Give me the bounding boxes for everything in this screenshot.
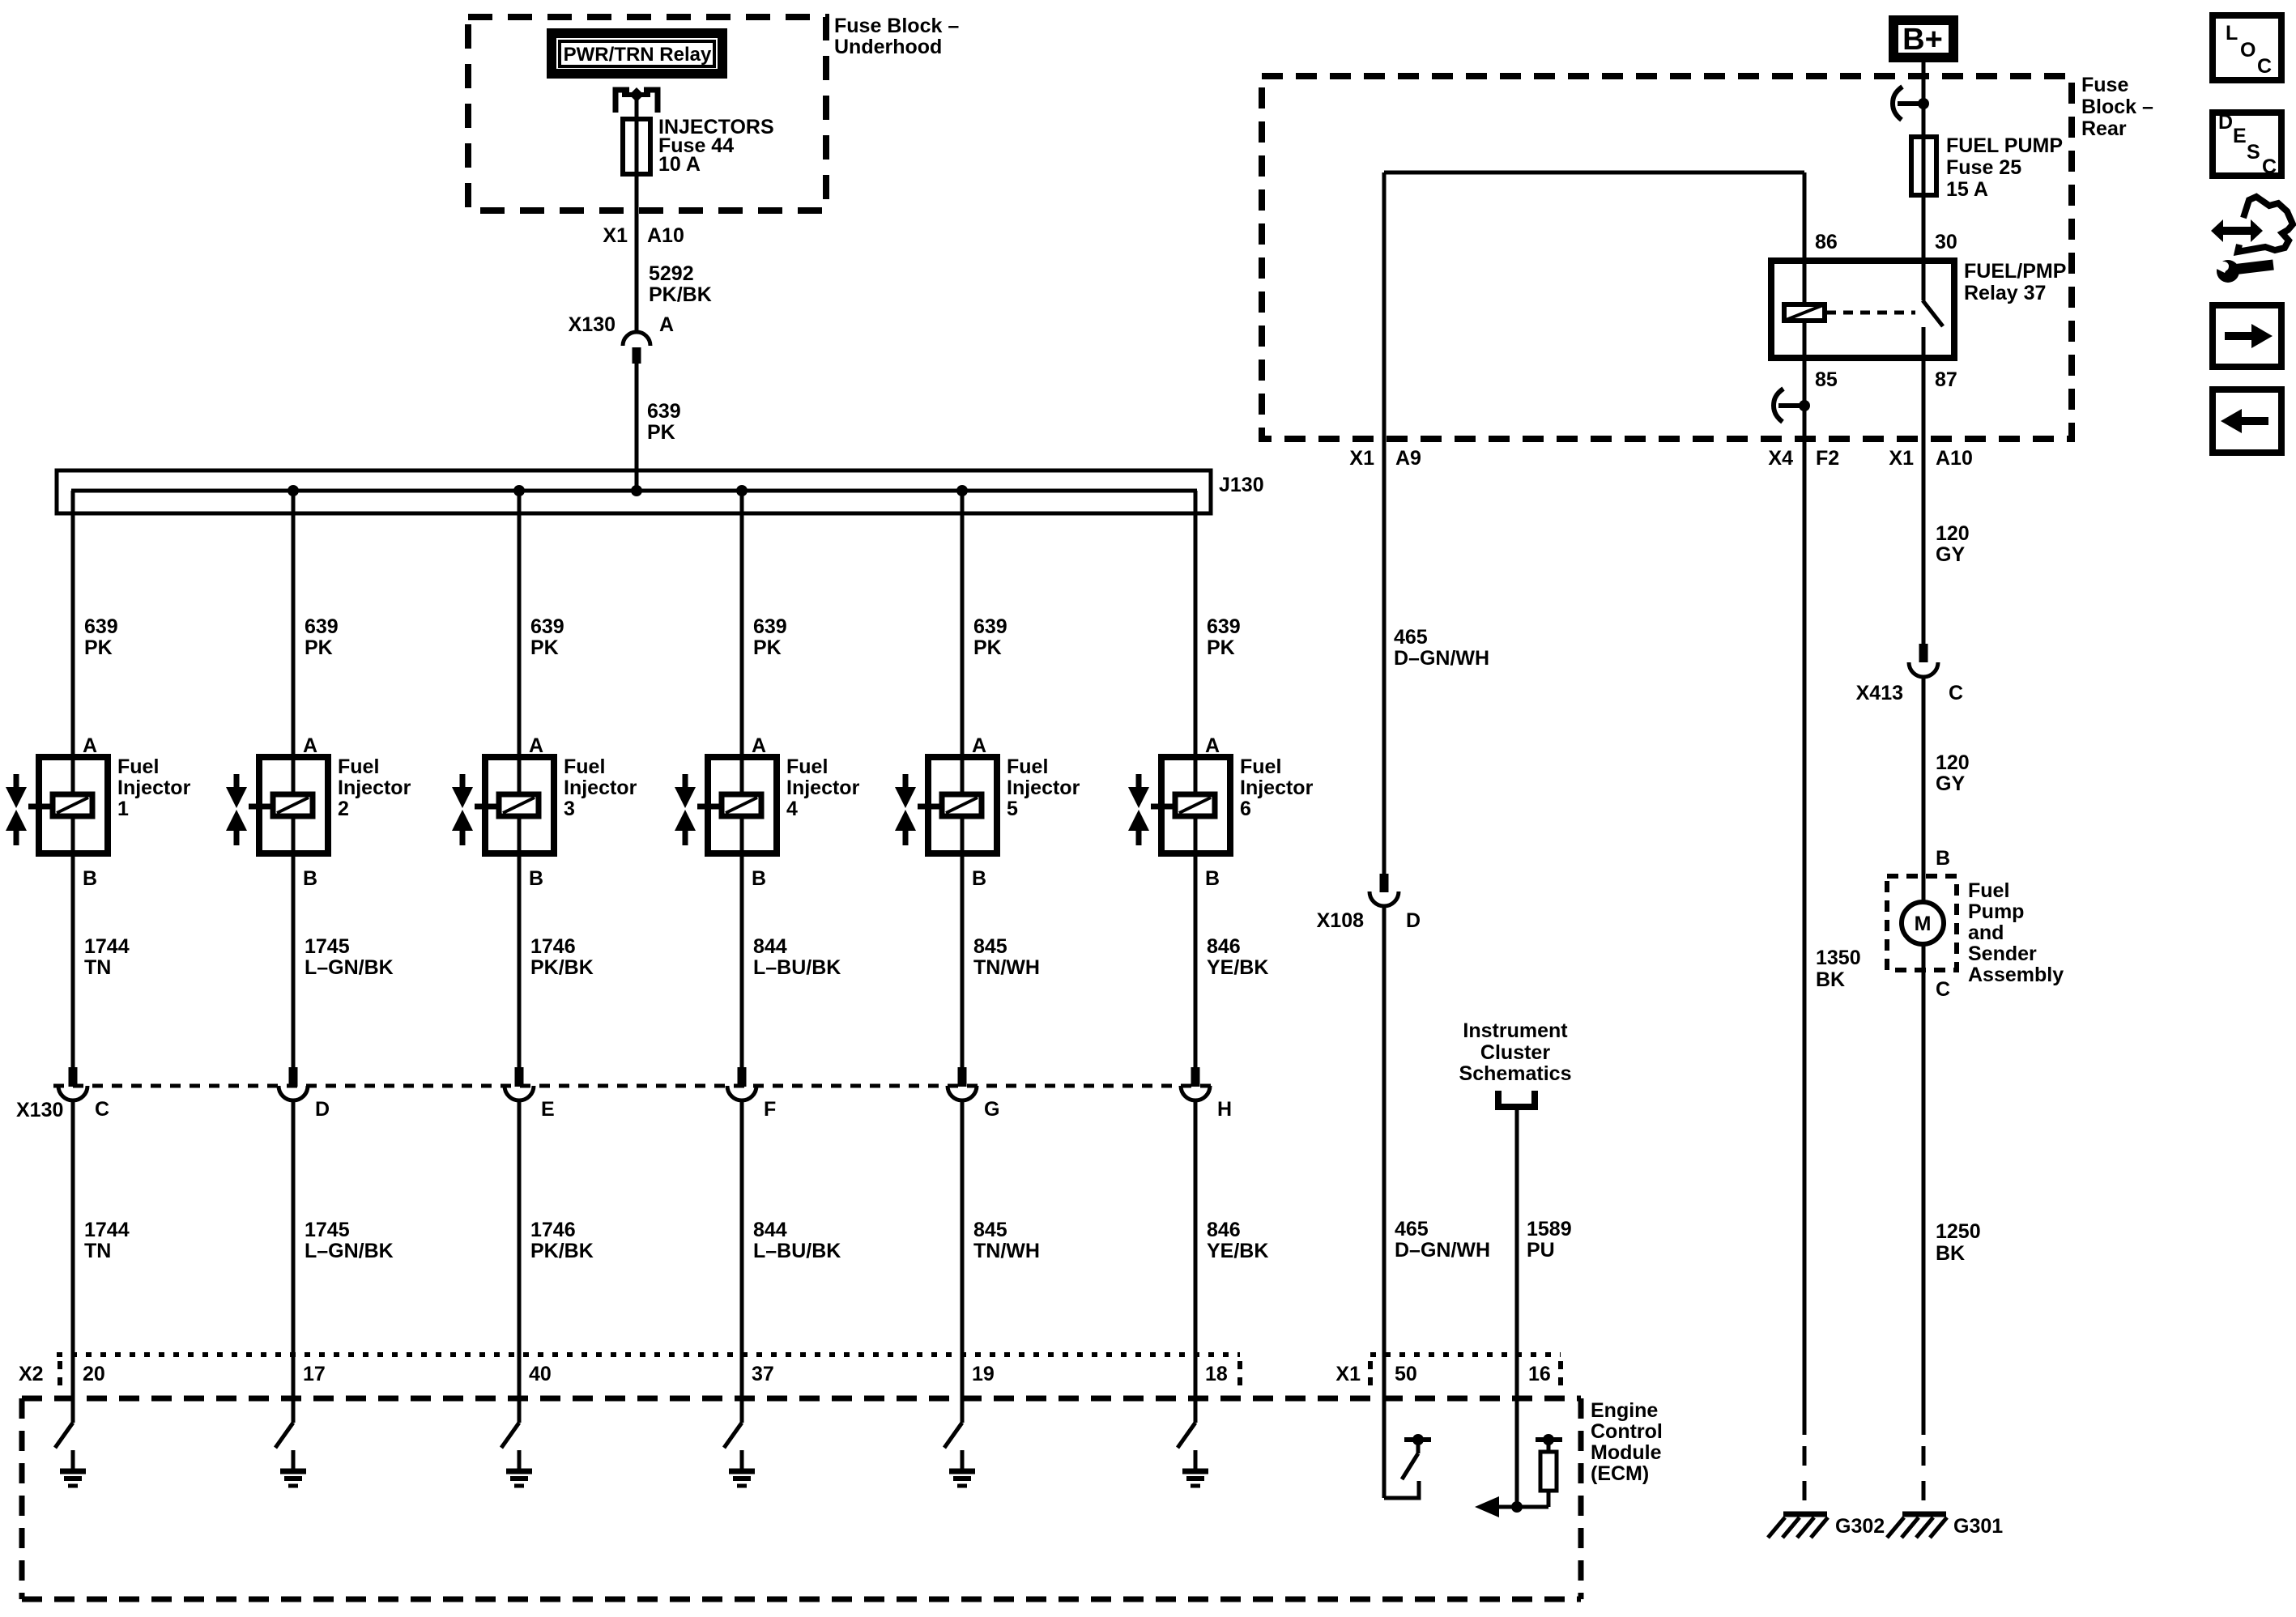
label wire 465 D-GN/WH (upper)	[1394, 626, 1489, 670]
svg-text:5: 5	[1007, 798, 1018, 820]
fuse block - underhood (dashed box)	[468, 17, 826, 211]
svg-text:Injector: Injector	[1240, 777, 1314, 799]
svg-text:B: B	[1205, 867, 1220, 890]
svg-text:S: S	[2247, 141, 2260, 164]
wire to G301 (dashed lead)	[1922, 1446, 1926, 1500]
svg-text:D–GN/WH: D–GN/WH	[1394, 647, 1489, 670]
label wire 639 PK (feed)	[647, 400, 681, 444]
svg-text:Fuel: Fuel	[117, 755, 159, 778]
svg-text:X130: X130	[569, 313, 616, 336]
svg-text:PWR/TRN Relay: PWR/TRN Relay	[564, 44, 712, 66]
svg-text:B: B	[83, 867, 97, 890]
svg-text:Cluster: Cluster	[1480, 1041, 1550, 1064]
svg-text:1589: 1589	[1527, 1218, 1572, 1240]
inline connector X130 pin G	[948, 1067, 999, 1121]
label wire 845 TN/WH lower	[973, 1219, 1040, 1262]
label Fuse Block - Rear	[2081, 74, 2153, 140]
svg-text:L–GN/BK: L–GN/BK	[305, 956, 394, 979]
wire 1746 PK/BK upper	[518, 853, 522, 1067]
svg-text:86: 86	[1815, 231, 1838, 253]
svg-text:D: D	[2218, 111, 2233, 134]
wire 639 PK to fuel injector 5	[961, 491, 965, 757]
label wire 465 D-GN/WH (lower)	[1395, 1218, 1490, 1262]
ground G301	[1887, 1514, 2003, 1538]
svg-text:BK: BK	[1936, 1242, 1965, 1265]
clip at B+ feed	[1893, 87, 1929, 120]
fuel injector 5	[895, 757, 997, 853]
wire 1744 TN upper	[71, 853, 75, 1067]
label wire 1746 PK/BK lower	[530, 1219, 594, 1262]
svg-text:6: 6	[1240, 798, 1251, 820]
wire 1744 TN lower	[71, 1100, 75, 1423]
svg-text:Fuel: Fuel	[564, 755, 605, 778]
svg-text:X2: X2	[19, 1363, 44, 1385]
svg-text:PK: PK	[84, 636, 113, 659]
svg-text:D: D	[315, 1098, 330, 1121]
svg-text:B: B	[752, 867, 766, 890]
svg-text:Injector: Injector	[1007, 777, 1080, 799]
label Fuel Injector 6	[1240, 755, 1314, 820]
icon adjust/wrench	[2211, 197, 2293, 283]
label relay pin 85	[1815, 368, 1838, 391]
label pin A injector 1	[83, 734, 97, 757]
svg-text:639: 639	[530, 615, 564, 638]
label FUEL PUMP Fuse 25 15 A	[1946, 134, 2063, 201]
wire 639 PK to fuel injector 1	[71, 491, 75, 757]
svg-text:BK: BK	[1816, 968, 1845, 991]
label X4 F2	[1768, 447, 1839, 470]
label Fuel Injector 4	[786, 755, 860, 820]
inline connector X130 pin E	[505, 1067, 555, 1121]
ground symbol col 3	[506, 1450, 532, 1486]
label ECM pin 37	[752, 1363, 774, 1385]
svg-text:639: 639	[84, 615, 118, 638]
svg-text:4: 4	[786, 798, 798, 820]
wire 465 D-GN/WH to ECM pin 50	[1382, 906, 1387, 1498]
label X1 (ECM)	[1335, 1363, 1361, 1385]
svg-text:PK: PK	[973, 636, 1002, 659]
svg-text:Injector: Injector	[786, 777, 860, 799]
svg-text:E: E	[2233, 125, 2247, 147]
relay PWR/TRN Relay (box)	[552, 33, 722, 74]
label Fuel Pump and Sender Assembly	[1968, 879, 2064, 986]
svg-text:(ECM): (ECM)	[1591, 1462, 1649, 1485]
svg-text:B+: B+	[1902, 23, 1943, 57]
fuel injector 3	[452, 757, 554, 853]
svg-text:19: 19	[972, 1363, 995, 1385]
icon back arrow box	[2213, 389, 2281, 453]
svg-text:Fuse: Fuse	[2081, 74, 2128, 96]
svg-text:X1: X1	[1335, 1363, 1361, 1385]
wire 465 D-GN/WH vertical	[1382, 172, 1387, 874]
fuel injector 2	[226, 757, 328, 853]
svg-text:Module: Module	[1591, 1441, 1662, 1464]
svg-text:2: 2	[338, 798, 349, 820]
label wire 844 L–BU/BK upper	[753, 935, 841, 979]
svg-text:PK/BK: PK/BK	[530, 1240, 594, 1262]
svg-text:B: B	[1936, 847, 1950, 870]
svg-text:50: 50	[1395, 1363, 1417, 1385]
fuel pump and sender assembly (dashed box)	[1887, 876, 1957, 970]
svg-text:X1: X1	[603, 224, 628, 247]
label wire 1744 TN lower	[84, 1219, 130, 1262]
svg-text:A: A	[659, 313, 674, 336]
label wire 1350 BK	[1816, 947, 1861, 991]
wire 120 GY upper	[1922, 358, 1926, 644]
svg-text:G: G	[984, 1098, 999, 1121]
ECM driver switch col 2	[275, 1423, 293, 1448]
svg-text:20: 20	[83, 1363, 105, 1385]
svg-text:PK: PK	[530, 636, 559, 659]
splice pack J130 (bus)	[57, 470, 1264, 513]
label pin A injector 3	[529, 734, 543, 757]
label Fuel Injector 2	[338, 755, 411, 820]
svg-text:Schematics: Schematics	[1459, 1062, 1572, 1085]
svg-text:Engine: Engine	[1591, 1399, 1658, 1422]
relay switch blade	[1923, 300, 1943, 358]
svg-text:Fuel: Fuel	[338, 755, 379, 778]
label wire 1250 BK	[1936, 1220, 1981, 1265]
wire 639 PK to fuel injector 2	[292, 491, 296, 757]
fuel injector 6	[1128, 757, 1230, 853]
svg-text:PU: PU	[1527, 1239, 1555, 1262]
svg-text:X1: X1	[1889, 447, 1914, 470]
label pin B injector 5	[972, 867, 986, 890]
ECM driver switch col 3	[501, 1423, 519, 1448]
relay FUEL/PMP Relay 37 (box)	[1771, 261, 1954, 358]
wire 845 TN/WH upper	[961, 853, 965, 1067]
ECM switch at pin 50	[1384, 1434, 1431, 1498]
svg-text:85: 85	[1815, 368, 1838, 391]
svg-text:X4: X4	[1768, 447, 1793, 470]
svg-text:465: 465	[1395, 1218, 1429, 1240]
svg-text:D–GN/WH: D–GN/WH	[1395, 1239, 1490, 1262]
inline connector X130 pin A	[569, 313, 674, 364]
svg-text:120: 120	[1936, 522, 1970, 545]
ECM driver switch col 1	[55, 1423, 73, 1448]
svg-text:17: 17	[303, 1363, 326, 1385]
svg-text:1744: 1744	[84, 935, 130, 958]
svg-text:O: O	[2240, 39, 2256, 62]
ECM driver switch col 6	[1178, 1423, 1195, 1448]
label Fuel Injector 5	[1007, 755, 1080, 820]
label pin B injector 4	[752, 867, 766, 890]
fuse F25 FUEL PUMP Fuse 25 15A	[1911, 137, 1936, 195]
svg-text:Fuel: Fuel	[1240, 755, 1281, 778]
ground symbol col 4	[729, 1450, 755, 1486]
label pin B injector 6	[1205, 867, 1220, 890]
wire 639 PK to fuel injector 3	[518, 491, 522, 757]
svg-text:A10: A10	[647, 224, 684, 247]
svg-text:Injector: Injector	[117, 777, 191, 799]
label pin B injector 1	[83, 867, 97, 890]
svg-text:TN: TN	[84, 956, 111, 979]
svg-text:639: 639	[973, 615, 1007, 638]
relay coil-switch link (dashed)	[1826, 311, 1915, 315]
svg-text:846: 846	[1207, 935, 1241, 958]
svg-text:YE/BK: YE/BK	[1207, 956, 1268, 979]
svg-text:845: 845	[973, 1219, 1007, 1241]
label Engine Control Module (ECM)	[1591, 1399, 1663, 1485]
label ECM pin 16	[1528, 1363, 1551, 1385]
svg-text:844: 844	[753, 1219, 787, 1241]
svg-text:16: 16	[1528, 1363, 1551, 1385]
svg-text:15 A: 15 A	[1946, 178, 1988, 201]
tick X2 right	[1237, 1361, 1242, 1386]
wire 1589 PU	[1515, 1107, 1519, 1507]
svg-text:1: 1	[117, 798, 129, 820]
label X1 A10 (rear)	[1889, 447, 1972, 470]
svg-text:Underhood: Underhood	[834, 36, 942, 58]
svg-text:PK/BK: PK/BK	[649, 283, 712, 306]
icon DESC box	[2213, 111, 2281, 178]
wire 846 YE/BK lower	[1194, 1100, 1198, 1423]
instrument cluster bracket	[1498, 1091, 1535, 1107]
svg-text:F2: F2	[1816, 447, 1839, 470]
fuel injector 4	[675, 757, 777, 853]
svg-text:H: H	[1217, 1098, 1232, 1121]
inline connector X130 pin H	[1181, 1067, 1232, 1121]
engine control module ECM (dashed box)	[22, 1398, 1581, 1599]
wire 846 YE/BK upper	[1194, 853, 1198, 1067]
label wire 5292 PK/BK	[649, 262, 712, 306]
ECM driver switch col 5	[944, 1423, 962, 1448]
label wire 639 PK col 1	[84, 615, 118, 659]
ground symbol col 5	[949, 1450, 975, 1486]
label pin A injector 5	[972, 734, 986, 757]
connector row X2 (dotted)	[57, 1352, 1240, 1357]
svg-text:1746: 1746	[530, 1219, 576, 1241]
svg-text:3: 3	[564, 798, 575, 820]
svg-text:GY: GY	[1936, 543, 1965, 566]
svg-text:PK: PK	[305, 636, 333, 659]
svg-text:87: 87	[1935, 368, 1957, 391]
svg-text:YE/BK: YE/BK	[1207, 1240, 1268, 1262]
svg-text:L–GN/BK: L–GN/BK	[305, 1240, 394, 1262]
ground G302	[1768, 1514, 1885, 1538]
svg-text:FUEL/PMP: FUEL/PMP	[1964, 260, 2066, 283]
svg-text:X108: X108	[1317, 909, 1364, 932]
battery feed B+	[1893, 20, 1953, 57]
svg-text:A: A	[752, 734, 766, 757]
svg-text:G302: G302	[1835, 1515, 1885, 1538]
label wire 1745 L–GN/BK upper	[305, 935, 394, 979]
svg-text:and: and	[1968, 921, 2004, 944]
svg-text:30: 30	[1935, 231, 1957, 253]
label wire 1744 TN upper	[84, 935, 130, 979]
svg-text:465: 465	[1394, 626, 1428, 649]
inline connector X130 pin D	[279, 1067, 330, 1121]
svg-text:A9: A9	[1395, 447, 1421, 470]
wire 1250 BK	[1922, 944, 1926, 1435]
fuse block - rear (dashed box)	[1262, 76, 2072, 439]
svg-text:M: M	[1915, 913, 1932, 935]
svg-text:639: 639	[647, 400, 681, 423]
svg-text:J130: J130	[1219, 474, 1264, 496]
ground symbol col 6	[1182, 1450, 1208, 1486]
svg-text:A: A	[972, 734, 986, 757]
label wire 1745 L–GN/BK lower	[305, 1219, 394, 1262]
label wire 846 YE/BK upper	[1207, 935, 1268, 979]
label pin A injector 2	[303, 734, 317, 757]
svg-text:846: 846	[1207, 1219, 1241, 1241]
svg-text:1744: 1744	[84, 1219, 130, 1241]
wire relay to fuse 44	[635, 95, 639, 121]
label wire 845 TN/WH upper	[973, 935, 1040, 979]
label ECM pin 19	[972, 1363, 995, 1385]
svg-text:A10: A10	[1936, 447, 1973, 470]
label connector X1 A10 (underhood)	[603, 224, 684, 247]
label X2	[19, 1363, 44, 1385]
wire 844 L–BU/BK lower	[740, 1100, 744, 1423]
ECM resistor at pin 16	[1475, 1434, 1562, 1517]
svg-text:FUEL PUMP: FUEL PUMP	[1946, 134, 2063, 157]
svg-text:F: F	[764, 1098, 776, 1121]
label wire 1746 PK/BK upper	[530, 935, 594, 979]
label relay pin 86	[1815, 231, 1838, 253]
svg-text:1746: 1746	[530, 935, 576, 958]
inline connector X130 pin C	[58, 1067, 109, 1121]
wire 1745 L–GN/BK lower	[292, 1100, 296, 1423]
svg-text:Sender: Sender	[1968, 943, 2037, 965]
fuel injector 1	[6, 757, 108, 853]
wire fuse 44 to X130-A	[635, 121, 639, 332]
svg-text:C: C	[2257, 55, 2272, 78]
svg-text:639: 639	[1207, 615, 1241, 638]
label Fuse Block - Underhood	[834, 15, 959, 58]
label pin B injector 2	[303, 867, 317, 890]
svg-text:TN/WH: TN/WH	[973, 1240, 1040, 1262]
label wire 844 L–BU/BK lower	[753, 1219, 841, 1262]
svg-text:Rear: Rear	[2081, 117, 2127, 140]
ground symbol col 2	[280, 1450, 306, 1486]
label relay pin 87	[1935, 368, 1957, 391]
svg-text:Injector: Injector	[338, 777, 411, 799]
svg-text:E: E	[541, 1098, 555, 1121]
wire 639 PK to fuel injector 4	[740, 491, 744, 757]
svg-text:1250: 1250	[1936, 1220, 1981, 1243]
svg-text:L: L	[2226, 22, 2238, 45]
tick X1 left	[1368, 1361, 1373, 1386]
label wire 1589 PU	[1527, 1218, 1572, 1262]
inline connector X413 pin C	[1856, 644, 1963, 704]
svg-text:C: C	[1936, 978, 1950, 1001]
label pin B fuel pump	[1936, 847, 1950, 870]
svg-text:X1: X1	[1349, 447, 1374, 470]
svg-text:Assembly: Assembly	[1968, 964, 2064, 986]
svg-text:B: B	[529, 867, 543, 890]
svg-text:Relay 37: Relay 37	[1964, 282, 2046, 304]
svg-text:Control: Control	[1591, 1420, 1663, 1443]
label ECM pin 18	[1205, 1363, 1228, 1385]
wire 639 PK feed	[635, 364, 639, 491]
label Fuel Injector 1	[117, 755, 191, 820]
ground symbol col 1	[60, 1450, 86, 1486]
svg-text:PK/BK: PK/BK	[530, 956, 594, 979]
svg-text:Fuel: Fuel	[786, 755, 828, 778]
svg-text:A: A	[303, 734, 317, 757]
svg-text:D: D	[1406, 909, 1421, 932]
svg-text:C: C	[95, 1098, 109, 1121]
label pin C fuel pump	[1936, 978, 1950, 1001]
svg-text:A: A	[1205, 734, 1220, 757]
svg-text:B: B	[303, 867, 317, 890]
svg-text:844: 844	[753, 935, 787, 958]
label wire 120 GY (lower)	[1936, 751, 1970, 795]
icon LOC box	[2213, 15, 2281, 80]
label X130 (row)	[16, 1099, 63, 1121]
wire 844 L–BU/BK upper	[740, 853, 744, 1067]
svg-text:B: B	[972, 867, 986, 890]
svg-text:845: 845	[973, 935, 1007, 958]
svg-text:639: 639	[305, 615, 339, 638]
connector row X130 C-H (dashed)	[53, 1084, 1212, 1088]
svg-text:L–BU/BK: L–BU/BK	[753, 956, 841, 979]
tick X1 right	[1558, 1361, 1563, 1386]
label Instrument Cluster Schematics	[1459, 1019, 1572, 1085]
svg-text:Pump: Pump	[1968, 900, 2024, 923]
svg-text:C: C	[2262, 155, 2277, 178]
inline connector X130 pin F	[727, 1067, 776, 1121]
wire to G302 (dashed lead)	[1803, 1446, 1807, 1500]
wire 120 GY lower	[1922, 677, 1926, 902]
label wire 639 PK col 2	[305, 615, 339, 659]
svg-text:X413: X413	[1856, 682, 1903, 704]
svg-text:Block –: Block –	[2081, 96, 2153, 118]
svg-text:GY: GY	[1936, 772, 1965, 795]
svg-text:18: 18	[1205, 1363, 1228, 1385]
label ECM pin 40	[529, 1363, 552, 1385]
label FUEL/PMP Relay 37	[1964, 260, 2066, 304]
wire 1745 L–GN/BK upper	[292, 853, 296, 1067]
label ECM pin 20	[83, 1363, 105, 1385]
svg-text:Fuel: Fuel	[1968, 879, 2009, 902]
svg-text:1350: 1350	[1816, 947, 1861, 969]
label relay pin 30	[1935, 231, 1957, 253]
svg-text:A: A	[83, 734, 97, 757]
svg-text:PK: PK	[647, 421, 675, 444]
label pin A injector 4	[752, 734, 766, 757]
svg-text:Injector: Injector	[564, 777, 637, 799]
label wire 120 GY (upper)	[1936, 522, 1970, 566]
relay terminal clip	[616, 87, 658, 113]
icon forward arrow box	[2213, 305, 2281, 367]
label ECM pin 50	[1395, 1363, 1417, 1385]
tick X2 left	[58, 1361, 62, 1386]
fuse F44 INJECTORS Fuse 44 10A	[623, 119, 650, 174]
svg-text:37: 37	[752, 1363, 774, 1385]
label INJECTORS Fuse 44 10 A	[658, 116, 774, 176]
label ECM pin 17	[303, 1363, 326, 1385]
svg-text:Fuse Block –: Fuse Block –	[834, 15, 959, 37]
junction dots on J130	[288, 485, 968, 496]
svg-text:639: 639	[753, 615, 787, 638]
svg-text:TN: TN	[84, 1240, 111, 1262]
svg-text:X130: X130	[16, 1099, 63, 1121]
wire 465 horizontal	[1384, 171, 1804, 175]
wire 639 PK to fuel injector 6	[1194, 491, 1198, 757]
wire 845 TN/WH lower	[961, 1100, 965, 1423]
ECM driver switch col 4	[724, 1423, 742, 1448]
svg-text:PK: PK	[1207, 636, 1235, 659]
label wire 639 PK col 4	[753, 615, 787, 659]
fuel pump motor M	[1902, 902, 1944, 944]
wire B+ to fuse 25	[1922, 62, 1926, 138]
wire fuse 25 to relay 30	[1922, 195, 1926, 300]
svg-text:A: A	[529, 734, 543, 757]
svg-text:C: C	[1949, 682, 1963, 704]
svg-text:Fuse 25: Fuse 25	[1946, 156, 2021, 179]
